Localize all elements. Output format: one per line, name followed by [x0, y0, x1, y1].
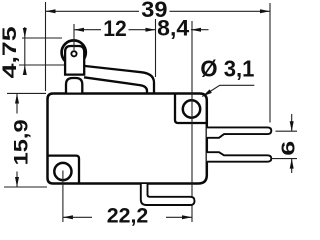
- arrow 22,2 left: [63, 215, 73, 219]
- mounting boss top-right (inner lines): [175, 95, 207, 124]
- svg-text:12: 12: [103, 16, 127, 41]
- arrow 6 bottom (points up): [290, 159, 294, 169]
- roller: [62, 40, 86, 64]
- svg-text:Ø 3,1: Ø 3,1: [200, 56, 254, 82]
- extension line hole center (8,4 / 22,2 dim): [191, 21, 193, 222]
- extension line hole center bottom-left (22,2 dim): [62, 171, 64, 223]
- svg-text:8,4: 8,4: [157, 16, 190, 41]
- terminal pin NC (lower right): [207, 152, 271, 162]
- dimension line 6: [291, 114, 293, 131]
- extension line 4,75 bottom (roller bottom tangent): [19, 64, 66, 66]
- terminal pin NO (upper right): [207, 127, 271, 137]
- dimension line 39: [46, 10, 140, 12]
- arrow 8,4 right (points left at hole center line): [191, 28, 201, 32]
- arrow 12 right / 8,4 left: [146, 28, 156, 32]
- arrow 4,75 top (points down to top tangent): [23, 28, 27, 38]
- extension line 4,75 top (roller top tangent): [22, 37, 62, 39]
- leader arrowhead: [202, 89, 212, 96]
- extension tick pin2 center (6 dim): [272, 158, 298, 160]
- extension line 15,9 bottom (body bottom): [4, 186, 47, 188]
- extension tick pin1 center (6 dim): [276, 130, 298, 132]
- extension line 15,9 top (body top): [7, 92, 46, 94]
- svg-text:15,9: 15,9: [11, 119, 32, 165]
- terminal pin COM (bottom, L-shaped): [141, 184, 195, 205]
- arrow 39 right: [260, 9, 270, 13]
- dimension line 22,2: [63, 216, 92, 218]
- mounting hole bottom-left: [54, 163, 71, 180]
- switch body: [48, 94, 207, 184]
- roller pin: [71, 51, 76, 56]
- extension line right (39 dim, pin tips): [269, 3, 271, 123]
- extension line lever tip (12/8,4 dim): [155, 19, 157, 77]
- dimension 8,4 right arrow tail: [191, 29, 209, 31]
- arrow 4,75 bottom (points up to bottom tangent): [23, 65, 27, 75]
- arrow 6 top (points down): [290, 121, 294, 131]
- arrow 39 left: [46, 9, 56, 13]
- lever bracket: [65, 46, 84, 75]
- arrow 22,2 right: [182, 215, 192, 219]
- mounting hole top-right: [183, 100, 200, 117]
- arrow 15,9 bottom: [15, 177, 19, 187]
- dimension line 15,9: [16, 94, 18, 114]
- dimension line 12: [74, 29, 101, 31]
- arrow 12 left: [74, 28, 84, 32]
- extension line left (39 dim, body left edge): [45, 2, 47, 91]
- svg-text:4,75: 4,75: [0, 26, 21, 78]
- extension line roller center (12 dim): [73, 24, 75, 50]
- svg-text:22,2: 22,2: [107, 203, 149, 227]
- arrow 15,9 top: [15, 94, 19, 104]
- leader line for hole diameter: [202, 85, 254, 96]
- lever arm with folded tip: [84, 66, 154, 93]
- plunger dome: [66, 78, 82, 93]
- mounting boss bottom-left (inner lines): [48, 156, 79, 183]
- dimension line 4,75: [24, 27, 26, 72]
- svg-text:6: 6: [277, 141, 298, 156]
